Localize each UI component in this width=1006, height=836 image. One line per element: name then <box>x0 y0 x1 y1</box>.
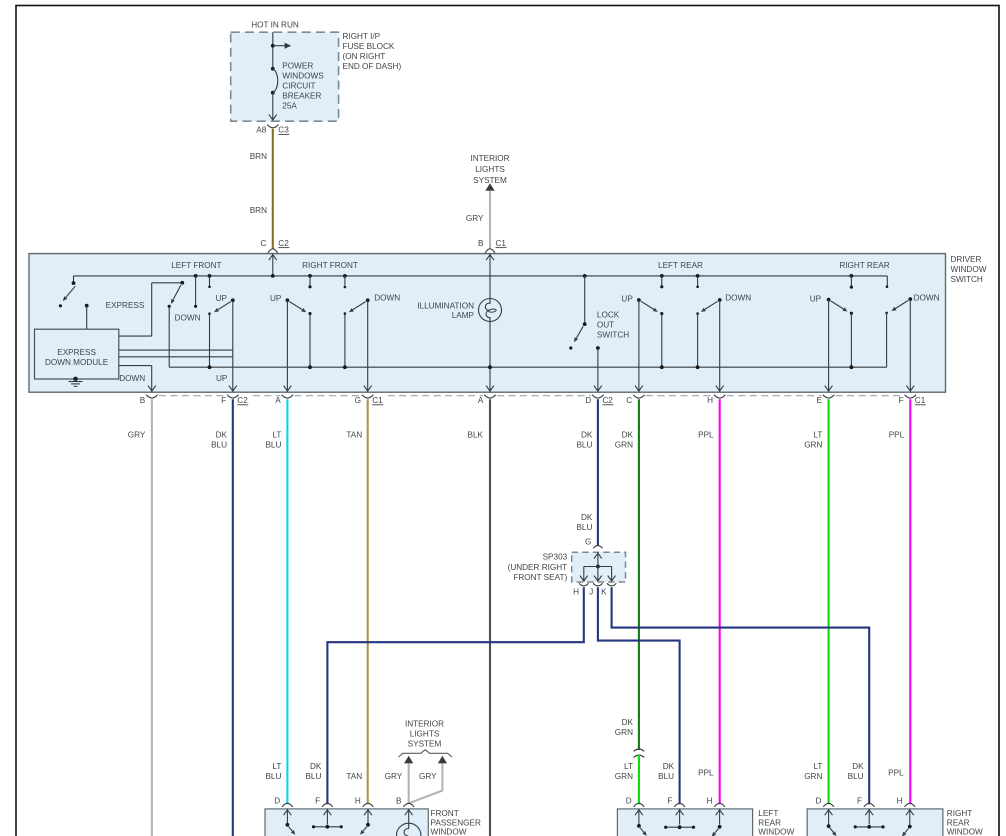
svg-text:FRONT SEAT): FRONT SEAT) <box>513 573 567 582</box>
svg-text:G: G <box>355 396 361 405</box>
svg-text:LT: LT <box>272 762 281 771</box>
splice SP303 internal junction <box>597 552 599 566</box>
svg-text:WINDOW: WINDOW <box>947 828 983 836</box>
pin D window motor box <box>634 803 645 807</box>
switch RIGHT FRONT UP pivot <box>286 298 290 302</box>
svg-text:BLU: BLU <box>265 440 281 449</box>
svg-text:REAR: REAR <box>758 818 781 827</box>
switch right rear H <box>908 825 912 829</box>
switch RIGHT FRONT UP contact from bus <box>308 274 312 278</box>
svg-text:REAR: REAR <box>947 818 970 827</box>
svg-text:LT: LT <box>272 430 281 439</box>
switch LEFT FRONT DOWN contact to common <box>168 305 171 308</box>
svg-text:LIGHTS: LIGHTS <box>410 729 440 738</box>
svg-text:DK: DK <box>581 513 593 522</box>
svg-text:EXPRESS: EXPRESS <box>57 348 96 357</box>
svg-text:D: D <box>585 396 591 405</box>
front passenger window box <box>265 809 428 836</box>
pin F window motor box <box>864 803 875 807</box>
svg-text:E: E <box>816 396 822 405</box>
node branch to other circuits <box>271 44 275 48</box>
svg-text:LEFT REAR: LEFT REAR <box>658 261 703 270</box>
pin D driver window switch bottom <box>594 386 602 391</box>
svg-text:CIRCUIT: CIRCUIT <box>282 81 315 90</box>
svg-text:C2: C2 <box>602 396 613 405</box>
svg-text:BLU: BLU <box>658 772 674 781</box>
svg-text:HOT IN RUN: HOT IN RUN <box>251 20 299 29</box>
svg-text:UP: UP <box>216 294 228 303</box>
switch RIGHT REAR DOWN contact to common <box>885 312 888 315</box>
wire right front up pivot to pin A <box>286 300 288 391</box>
svg-text:LT: LT <box>624 762 633 771</box>
wire LT GRN splice to left rear D <box>638 755 640 805</box>
svg-text:GRY: GRY <box>419 772 437 781</box>
pin H window motor box <box>714 803 725 807</box>
svg-text:G: G <box>585 537 591 546</box>
wire right rear up pivot to pin E <box>828 300 830 392</box>
switch left rear F common bar <box>666 826 694 828</box>
lamp front passenger illumination (cut off) <box>397 823 421 836</box>
svg-text:GRY: GRY <box>385 772 403 781</box>
switch LOCK OUT open contact <box>569 346 572 349</box>
svg-text:ILLUMINATION: ILLUMINATION <box>417 301 474 310</box>
pin F driver window switch bottom <box>229 386 237 391</box>
wire LT GRN pin E to right rear D <box>828 399 830 804</box>
svg-text:GRY: GRY <box>466 214 484 223</box>
svg-text:A: A <box>478 396 484 405</box>
brace to interior lights system <box>399 750 453 757</box>
switch right rear F common bar <box>855 826 883 828</box>
switch LEFT REAR UP pivot <box>637 298 641 302</box>
wire LT BLU pin A to front passenger D <box>286 399 288 804</box>
svg-text:UP: UP <box>810 294 822 303</box>
svg-text:B: B <box>478 239 484 248</box>
svg-text:GRN: GRN <box>615 772 633 781</box>
svg-text:C2: C2 <box>237 396 248 405</box>
svg-text:BLU: BLU <box>265 772 281 781</box>
svg-text:H: H <box>355 797 361 806</box>
svg-text:GRN: GRN <box>804 772 822 781</box>
svg-text:EXPRESS: EXPRESS <box>106 301 145 310</box>
wire DK BLU pin F down <box>232 399 234 836</box>
svg-text:LEFT FRONT: LEFT FRONT <box>171 261 221 270</box>
left rear window box <box>617 809 752 836</box>
wire module up output <box>119 356 233 358</box>
wire PPL pin H to left rear H <box>719 399 721 804</box>
splice symbol DK GRN to LT GRN <box>634 749 645 757</box>
wire module to down switch pivot <box>119 335 152 337</box>
arrow GRY left to interior lights <box>404 756 413 764</box>
switch EXPRESS lower contact <box>59 304 62 307</box>
svg-text:TAN: TAN <box>346 430 362 439</box>
express down module box <box>35 329 119 379</box>
wire right rear down pivot to pin F <box>909 299 911 392</box>
wire breaker output <box>272 93 274 120</box>
svg-text:H: H <box>706 797 712 806</box>
svg-text:D: D <box>815 797 821 806</box>
svg-text:BRN: BRN <box>250 206 267 215</box>
wire DK BLU splice K to right rear F <box>612 587 870 804</box>
wire bus B+ inside switch <box>74 275 888 277</box>
svg-text:PPL: PPL <box>698 430 714 439</box>
pin H window motor box <box>905 803 916 807</box>
svg-text:F: F <box>315 797 320 806</box>
pin arrow B into switch <box>489 254 491 299</box>
svg-text:F: F <box>857 797 862 806</box>
svg-text:A8: A8 <box>256 126 266 135</box>
driver window switch box <box>29 254 946 393</box>
svg-text:D: D <box>626 797 632 806</box>
svg-text:RIGHT I/P: RIGHT I/P <box>343 32 381 41</box>
wire GRY to interior lights <box>489 191 491 249</box>
connector dashed line C2/C1 <box>159 395 903 397</box>
node bus-C junction <box>271 274 275 278</box>
circuit breaker CB 25A POWER WINDOWS <box>271 67 275 71</box>
switch RIGHT FRONT UP contact to common <box>308 312 311 315</box>
svg-text:(UNDER RIGHT: (UNDER RIGHT <box>508 563 568 572</box>
svg-text:LT: LT <box>813 430 822 439</box>
svg-text:C1: C1 <box>372 396 383 405</box>
svg-text:FRONT: FRONT <box>431 809 459 818</box>
svg-text:C3: C3 <box>278 126 289 135</box>
svg-text:DOWN: DOWN <box>914 294 940 303</box>
switch front passenger F common bar <box>314 826 342 828</box>
switch LEFT REAR DOWN contact to common <box>696 312 699 315</box>
switch LEFT FRONT DOWN contact from bus <box>194 274 198 278</box>
svg-text:LIGHTS: LIGHTS <box>475 165 505 174</box>
switch LEFT REAR DOWN stub from bus <box>696 274 700 278</box>
switch front passenger H <box>366 823 370 827</box>
pin B front passenger window <box>403 803 414 807</box>
svg-text:J: J <box>589 588 593 597</box>
svg-text:WINDOW: WINDOW <box>758 828 794 836</box>
svg-text:GRN: GRN <box>615 728 633 737</box>
wire module down output to pin B <box>119 365 152 367</box>
pin C driver window switch bottom <box>635 386 643 391</box>
svg-text:GRN: GRN <box>615 440 633 449</box>
wire module to up switch pivot <box>119 349 233 351</box>
switch right rear D <box>827 824 831 828</box>
pin G driver window switch bottom <box>364 386 372 391</box>
svg-text:DK: DK <box>852 762 864 771</box>
svg-text:BLU: BLU <box>211 440 227 449</box>
pin F driver window switch bottom <box>906 386 914 391</box>
svg-text:TAN: TAN <box>346 772 362 781</box>
svg-text:UP: UP <box>621 294 633 303</box>
pin H driver window switch bottom <box>716 386 724 391</box>
svg-text:SP303: SP303 <box>543 553 568 562</box>
svg-text:D: D <box>274 797 280 806</box>
svg-text:25A: 25A <box>282 101 297 110</box>
svg-text:BLU: BLU <box>576 440 592 449</box>
switch LEFT FRONT UP pivot <box>231 298 235 302</box>
switch EXPRESS contact from bus <box>73 276 75 282</box>
svg-text:BLU: BLU <box>576 523 592 532</box>
wire TAN pin G to front passenger H <box>367 399 369 804</box>
switch RIGHT REAR UP contact to common <box>850 312 853 315</box>
svg-text:PASSENGER: PASSENGER <box>431 818 481 827</box>
svg-text:PPL: PPL <box>889 430 905 439</box>
switch LOCK OUT arm <box>576 326 583 338</box>
wire left front up pivot to pin F <box>232 300 234 391</box>
switch RIGHT FRONT DOWN contact from bus <box>343 274 347 278</box>
svg-text:C1: C1 <box>496 239 507 248</box>
switch LOCK OUT output contact to pin D <box>596 346 600 350</box>
switch RIGHT REAR DOWN stub from bus end <box>886 276 888 286</box>
pin H splice output <box>579 583 588 586</box>
pin F window motor box <box>674 803 685 807</box>
wire express sense to module <box>85 304 89 308</box>
svg-text:BLU: BLU <box>848 772 864 781</box>
svg-text:GRN: GRN <box>804 440 822 449</box>
pin D window motor box <box>282 803 293 807</box>
svg-text:DOWN: DOWN <box>374 294 400 303</box>
svg-text:B: B <box>396 797 402 806</box>
svg-text:END OF DASH): END OF DASH) <box>343 62 402 71</box>
svg-text:DK: DK <box>622 718 634 727</box>
svg-text:C2: C2 <box>278 239 289 248</box>
pin H window motor box <box>363 803 374 807</box>
svg-text:RIGHT: RIGHT <box>947 809 972 818</box>
svg-text:PPL: PPL <box>698 768 714 777</box>
svg-text:SWITCH: SWITCH <box>597 331 629 340</box>
switch left rear D <box>637 824 641 828</box>
wire DK GRN pin C down to splice <box>638 399 640 750</box>
pin E driver window switch bottom <box>825 386 833 391</box>
pin F window motor box <box>322 803 333 807</box>
ground G at express down module <box>73 377 78 382</box>
svg-text:BRN: BRN <box>250 152 267 161</box>
svg-text:A: A <box>275 396 281 405</box>
svg-text:POWER: POWER <box>282 61 313 70</box>
pin A driver window switch bottom <box>486 386 494 391</box>
switch LEFT REAR UP contact to common <box>660 312 663 315</box>
pin J splice output <box>593 583 602 586</box>
switch LEFT REAR UP arm <box>641 301 654 309</box>
svg-text:C: C <box>260 239 266 248</box>
wire common return inside switch <box>169 366 886 368</box>
pin B driver window switch bottom <box>148 386 156 391</box>
svg-text:H: H <box>573 588 579 597</box>
wire DK BLU splice J to left rear F <box>598 587 680 804</box>
svg-text:DK: DK <box>663 762 675 771</box>
svg-text:RIGHT FRONT: RIGHT FRONT <box>302 261 358 270</box>
wire left rear up pivot to pin C <box>638 300 640 392</box>
svg-text:F: F <box>221 396 226 405</box>
switch RIGHT REAR UP pivot <box>827 298 831 302</box>
svg-text:LAMP: LAMP <box>452 311 475 320</box>
splice SP303 dashed box <box>572 552 626 582</box>
svg-text:DK: DK <box>622 430 634 439</box>
svg-text:WINDOW: WINDOW <box>431 828 467 836</box>
svg-text:BLK: BLK <box>468 430 484 439</box>
svg-text:INTERIOR: INTERIOR <box>470 154 509 163</box>
svg-text:DRIVER: DRIVER <box>951 255 982 264</box>
svg-text:WINDOW: WINDOW <box>951 265 987 274</box>
switch RIGHT REAR UP arm <box>831 301 844 309</box>
switch LEFT FRONT UP arm <box>218 302 231 310</box>
svg-text:C: C <box>626 396 632 405</box>
lamp ILLUMINATION LAMP <box>479 299 502 322</box>
switch LEFT REAR UP stub from bus <box>660 274 664 278</box>
switch RIGHT REAR DOWN pivot <box>908 297 912 301</box>
switch LEFT FRONT UP contact to common <box>208 312 211 315</box>
wire right front down pivot to pin G <box>367 300 369 391</box>
wire left rear down pivot to pin H <box>719 300 721 392</box>
wire DK BLU splice H to front passenger F <box>327 587 583 804</box>
switch EXPRESS arm <box>66 286 75 297</box>
svg-text:INTERIOR: INTERIOR <box>405 719 444 728</box>
svg-text:DOWN: DOWN <box>725 294 751 303</box>
switch RIGHT FRONT DOWN arm <box>353 302 366 310</box>
switch front passenger D <box>286 823 290 827</box>
switch RIGHT FRONT DOWN contact to common <box>344 312 347 315</box>
wire lamp to common and pin A <box>489 322 491 392</box>
svg-text:DOWN MODULE: DOWN MODULE <box>45 358 109 367</box>
svg-text:BLU: BLU <box>305 772 321 781</box>
svg-text:C1: C1 <box>915 396 926 405</box>
wire DK BLU pin D to splice SP303 <box>597 399 599 545</box>
switch RIGHT FRONT UP arm <box>290 302 303 310</box>
svg-text:LEFT: LEFT <box>758 809 778 818</box>
switch RIGHT REAR DOWN arm <box>895 300 908 308</box>
svg-text:DOWN: DOWN <box>175 314 201 323</box>
wire BRN from fuse block to switch <box>272 129 274 249</box>
pin A driver window switch bottom <box>284 386 292 391</box>
svg-text:B: B <box>140 396 146 405</box>
svg-text:UP: UP <box>216 374 228 383</box>
svg-text:(ON RIGHT: (ON RIGHT <box>343 52 386 61</box>
pin arrow C into switch <box>272 254 274 276</box>
svg-text:DOWN: DOWN <box>119 374 145 383</box>
svg-text:H: H <box>707 396 713 405</box>
switch RIGHT FRONT DOWN pivot <box>366 298 370 302</box>
switch LOCK OUT feed from bus <box>583 274 587 278</box>
wire hot feed inside fuse block <box>272 32 274 69</box>
svg-text:LOCK: LOCK <box>597 311 620 320</box>
switch LEFT REAR DOWN arm <box>705 301 718 309</box>
wire BLK pin A down <box>489 399 491 836</box>
svg-text:FUSE BLOCK: FUSE BLOCK <box>343 42 395 51</box>
svg-text:WINDOWS: WINDOWS <box>282 71 324 80</box>
right rear window box <box>807 809 943 836</box>
switch LEFT REAR DOWN pivot <box>718 298 722 302</box>
pin D window motor box <box>823 803 834 807</box>
svg-text:DK: DK <box>310 762 322 771</box>
wire PPL pin F to right rear H <box>909 399 911 804</box>
wire GRY pin B down <box>151 399 153 836</box>
svg-text:DK: DK <box>216 430 228 439</box>
fuse block dashed box (RIGHT I/P FUSE BLOCK) <box>231 32 339 121</box>
switch LEFT FRONT DOWN arm <box>173 285 181 300</box>
svg-text:LT: LT <box>813 762 822 771</box>
svg-text:DK: DK <box>581 430 593 439</box>
svg-text:SYSTEM: SYSTEM <box>408 739 442 748</box>
svg-text:UP: UP <box>270 294 282 303</box>
switch RIGHT REAR UP stub from bus <box>850 274 854 278</box>
svg-text:F: F <box>899 396 904 405</box>
svg-text:H: H <box>897 797 903 806</box>
svg-text:K: K <box>601 588 607 597</box>
svg-text:SWITCH: SWITCH <box>951 275 983 284</box>
svg-text:PPL: PPL <box>888 768 904 777</box>
svg-text:OUT: OUT <box>597 321 614 330</box>
pin K splice output <box>607 583 616 586</box>
switch LEFT FRONT DOWN pivot <box>180 281 184 285</box>
switch left rear H <box>718 825 722 829</box>
svg-text:BREAKER: BREAKER <box>282 91 321 100</box>
arrow GRY right to interior lights <box>438 756 447 764</box>
svg-text:RIGHT REAR: RIGHT REAR <box>839 261 889 270</box>
svg-text:GRY: GRY <box>128 430 146 439</box>
svg-text:F: F <box>667 797 672 806</box>
switch LEFT FRONT UP stub from bus <box>208 274 212 278</box>
